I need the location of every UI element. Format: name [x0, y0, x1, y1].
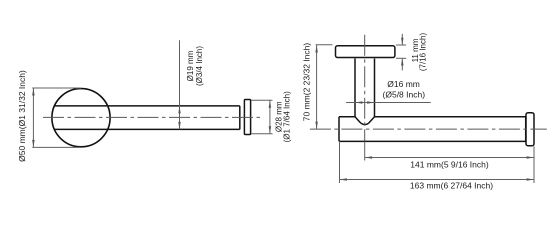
dimension Ø16	[346, 102, 431, 104]
dimension 70 mm	[316, 45, 333, 129]
svg-text:Ø16 mm: Ø16 mm	[387, 79, 420, 89]
bar end cap (side view)	[526, 113, 534, 146]
label 163 mm	[410, 181, 493, 191]
centerline (front view)	[43, 116, 262, 118]
vertical centerline (side view)	[364, 35, 366, 142]
dimension 11 mm	[396, 34, 406, 71]
dimension Ø28	[251, 100, 272, 134]
label 70 mm	[302, 43, 312, 122]
dimension 141 mm	[365, 141, 534, 183]
dimension Ø50	[32, 88, 81, 147]
svg-text:70 mm(2 23/32 Inch): 70 mm(2 23/32 Inch)	[302, 43, 312, 122]
dimension Ø19	[179, 40, 181, 129]
label Ø28 mm	[274, 91, 291, 142]
label 141 mm	[410, 160, 489, 170]
end cap (front view, Ø28)	[244, 100, 250, 135]
bar outline (side view)	[339, 117, 526, 142]
bar centerline (side view)	[310, 128, 547, 130]
label 11 mm	[411, 33, 427, 72]
svg-text:Ø19 mm: Ø19 mm	[186, 50, 195, 81]
flange circle (front view, Ø50)	[52, 89, 110, 147]
wall plate (side view, 11 mm thick)	[336, 46, 395, 58]
svg-text:(Ø1 7/64 Inch): (Ø1 7/64 Inch)	[283, 91, 292, 142]
svg-text:Ø50 mm(Ø1 31/32 Inch): Ø50 mm(Ø1 31/32 Inch)	[17, 70, 27, 162]
post (side view, Ø16)	[355, 59, 375, 125]
rod outline (front view, Ø19)	[54, 106, 240, 129]
svg-text:163 mm(6 27/64 Inch): 163 mm(6 27/64 Inch)	[410, 181, 493, 191]
dimension 163 mm	[340, 141, 535, 183]
svg-text:(7/16 Inch): (7/16 Inch)	[418, 33, 427, 72]
svg-text:141 mm(5 9/16 Inch): 141 mm(5 9/16 Inch)	[410, 160, 489, 170]
label Ø19 mm	[186, 46, 204, 86]
label Ø50 mm	[17, 70, 27, 162]
svg-text:(Ø5/8 Inch): (Ø5/8 Inch)	[383, 89, 426, 99]
label Ø16 mm	[383, 79, 426, 99]
svg-text:(Ø3/4 Inch): (Ø3/4 Inch)	[195, 46, 204, 86]
